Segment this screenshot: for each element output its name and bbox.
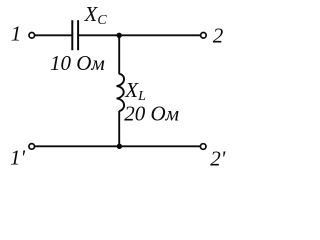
capacitor C (X_C) left plate [71, 20, 73, 50]
terminal 1 (open circle) [29, 33, 35, 39]
svg-text:XC: XC [84, 2, 108, 28]
svg-text:1: 1 [11, 21, 21, 45]
wire: top junction down to inductor [118, 35, 120, 74]
wire: capacitor right plate to terminal 2 [79, 34, 201, 36]
svg-text:XL: XL [124, 78, 146, 104]
terminal 1' (open circle) [29, 144, 35, 150]
svg-text:2: 2 [213, 23, 224, 47]
inductor L (X_L), 3 loops [117, 74, 124, 111]
capacitor C (X_C) right plate [77, 20, 79, 50]
svg-text:20 Ом: 20 Ом [124, 102, 179, 126]
junction node (bottom) [117, 144, 122, 149]
terminal 2 (open circle) [201, 33, 207, 39]
junction node (top) [117, 33, 122, 38]
svg-text:10 Ом: 10 Ом [50, 51, 105, 75]
svg-text:2': 2' [210, 146, 226, 170]
terminal 2' (open circle) [200, 144, 206, 150]
wire: bottom rail terminal 1' to terminal 2' [35, 145, 200, 147]
wire: inductor down to bottom junction [118, 111, 120, 147]
wire: terminal 1 to capacitor left plate [35, 34, 72, 36]
svg-text:1': 1' [10, 146, 26, 170]
